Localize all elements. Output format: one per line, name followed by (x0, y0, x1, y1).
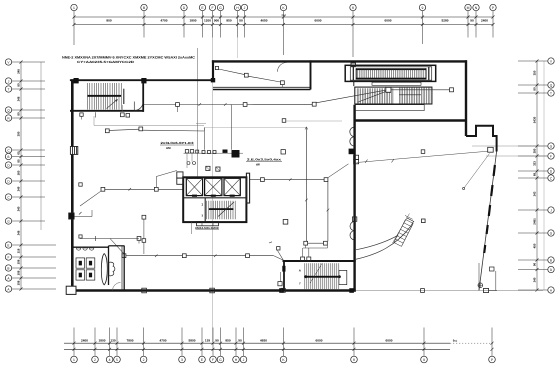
column bottom-left corner (66, 286, 76, 294)
svg-text:4x4: 4x4 (281, 13, 286, 17)
escalator black band top (356, 68, 426, 70)
svg-text:450: 450 (533, 243, 537, 248)
svg-text:b.c: b.c (453, 338, 458, 342)
wire W2 continues right y127.5 faint (204, 127, 306, 129)
wire W1 horizontal y104.5 (144, 104, 176, 106)
floor box open square (283, 220, 288, 225)
right vertical dimension line 2 (543, 61, 545, 290)
vestibule right wall (310, 60, 312, 89)
svg-text:1800: 1800 (99, 338, 106, 342)
svg-text:249: 249 (17, 186, 21, 191)
elevator shaft 2 door (211, 195, 216, 197)
toilet vesica door shape (101, 254, 107, 285)
svg-text:300: 300 (17, 131, 21, 136)
junction box on glass line (421, 289, 425, 293)
bottom right box (484, 288, 489, 292)
svg-text:240: 240 (17, 206, 21, 211)
svg-text:B: B (7, 266, 9, 270)
escalator block outer frame (345, 65, 436, 81)
junction box W6 d (304, 241, 308, 245)
svg-text:6000: 6000 (385, 19, 392, 23)
diagonal facade thick dashes (494, 165, 495, 176)
svg-text:2400: 2400 (481, 19, 488, 23)
top grid bubbles and ticks (71, 4, 77, 45)
svg-text:130: 130 (110, 338, 115, 342)
wall top-left y80.2 (70, 79, 213, 81)
svg-text:2x3L0x6-0P1-E3: 2x3L0x6-0P1-E3 (161, 141, 194, 145)
toilet flower sink (109, 262, 115, 276)
svg-text:E: E (7, 243, 9, 247)
svg-text:240: 240 (533, 277, 537, 282)
escalator end bars (352, 67, 354, 80)
right grid bubbles and stubs (518, 58, 554, 64)
svg-text:2.E.0x3.5x0.4xx: 2.E.0x3.5x0.4xx (247, 157, 281, 161)
svg-text:90: 90 (238, 338, 242, 342)
bottom right hook wire (489, 290, 498, 292)
elevator core outer wall (183, 177, 246, 222)
faint wire y121 (286, 120, 342, 122)
stair top-left door arc (134, 102, 143, 111)
urinal 2 (83, 248, 87, 250)
tick at top of x306 riser (305, 127, 308, 130)
bottom stair landing box (339, 270, 347, 284)
wire toilet diagonal (110, 239, 124, 254)
svg-text:248: 248 (17, 96, 21, 101)
bottom stair junction boxes on wall (301, 257, 305, 261)
svg-text:F: F (212, 358, 214, 362)
core wire down left (190, 222, 192, 234)
left grid bubbles and stubs (5, 59, 45, 65)
core inner wall vertical (204, 198, 206, 222)
elevator shaft 1 (186, 178, 202, 195)
right vertical dimension line (536, 61, 538, 290)
top grid line 5 extended (212, 11, 214, 342)
svg-text:850: 850 (225, 338, 230, 342)
glass line bottom right y290.5 (356, 290, 543, 292)
svg-text:2400: 2400 (81, 338, 88, 342)
left vertical dimension line (20, 62, 22, 289)
svg-text:350: 350 (533, 70, 537, 75)
svg-text:1: 1 (73, 6, 75, 10)
svg-text:80: 80 (17, 112, 21, 116)
svg-text:tW: tW (256, 162, 260, 166)
wire diagonal from W6 box to wall cluster (328, 164, 349, 178)
svg-text:800: 800 (106, 19, 111, 23)
svg-text:85: 85 (17, 159, 21, 163)
vestibule bottom double wall (213, 86, 311, 88)
bottom right vertical wire (478, 263, 480, 291)
wall cluster stacked boxes (354, 155, 359, 159)
floating box near K y120 (282, 119, 286, 123)
svg-text:4: 4 (109, 358, 111, 362)
stair room top-left right wall (142, 80, 144, 112)
svg-text:9: 9 (423, 358, 425, 362)
corner device box (488, 147, 494, 152)
column bottom grid B (142, 288, 147, 293)
junction box floating near D (421, 150, 425, 154)
wire W6 horizontal y179.6 (250, 179, 261, 181)
box D near curved stair (422, 219, 426, 223)
right grid line G extended (472, 145, 548, 147)
double door swing pair 1 on wall (350, 127, 355, 137)
elevator shaft 3 (224, 178, 240, 195)
wire vertical x327.9 (327, 182, 329, 242)
wall y120.5 middle right (355, 119, 467, 121)
stair room top-left bottom wall (70, 110, 143, 112)
wire W1 to right box (391, 89, 450, 91)
wire W4 diagonal to wall (80, 191, 102, 206)
svg-text:4650: 4650 (260, 338, 267, 342)
svg-text:108: 108 (17, 270, 21, 275)
wall bump top right corner (466, 126, 497, 152)
svg-text:2: 2 (143, 358, 145, 362)
svg-text:4700: 4700 (161, 19, 168, 23)
column bottom grid K (279, 288, 284, 293)
slab under escalator (372, 82, 421, 85)
right grid line F extended (486, 155, 548, 157)
stair top-left inner wall (123, 89, 125, 104)
escalator top-left small box (351, 63, 356, 66)
svg-text:108: 108 (17, 280, 21, 285)
svg-text:118: 118 (17, 248, 21, 253)
toilet right wall double (121, 246, 123, 291)
core stair handrail bar (209, 208, 234, 210)
cluster boxes (185, 150, 188, 153)
svg-text:80: 80 (17, 83, 21, 87)
stair top-left up arrow (107, 99, 118, 108)
double door swing pair 2 on wall (350, 222, 355, 231)
svg-text:9: 9 (422, 6, 424, 10)
wall right x466 (465, 60, 467, 136)
WC cubicle r1c1 (76, 258, 85, 268)
escalator 2 frame (355, 87, 432, 104)
riser line at x=197.5 (197, 48, 199, 177)
cluster small circles (187, 162, 190, 165)
bottom dimension line 1 (64, 342, 450, 344)
top dimension line 1 (74, 16, 493, 18)
wire W2 boxes and lines (105, 129, 109, 133)
svg-text:108: 108 (17, 259, 21, 264)
bottom dimension line 2 (64, 348, 450, 350)
bottom stair handrail bar (306, 276, 340, 278)
svg-text:J: J (243, 358, 245, 362)
elevator shaft 1 door (192, 195, 197, 197)
elevator core right bump (246, 173, 249, 203)
vestibule wire 1 (219, 69, 245, 75)
stair top-left handrail bar (88, 95, 122, 97)
svg-text:80: 80 (533, 87, 537, 91)
cluster wires (203, 128, 205, 150)
escalator 2 hatch right (398, 88, 400, 104)
elevator shaft 2 (205, 178, 222, 195)
curved stair arrow line (393, 214, 410, 244)
stair top-left treads (87, 83, 89, 110)
wall cluster filled box (349, 149, 355, 155)
svg-text:160: 160 (17, 170, 21, 175)
wire from W6 boxes down to stair boxes (305, 245, 307, 248)
escalator 2 direction arrow (400, 94, 422, 96)
svg-text:8: 8 (352, 6, 354, 10)
bottom stair treads (304, 263, 306, 289)
svg-text:AM: AM (166, 146, 171, 150)
wire left wall stub y216.5 (74, 216, 92, 218)
curved stair side edge right (402, 223, 414, 246)
bottom stair left wall dark blob (282, 266, 285, 272)
corner tick at x196 (196, 123, 206, 125)
junction box W1 c (312, 102, 316, 106)
junction box W1 b (243, 103, 247, 107)
device on left wall (79, 183, 82, 186)
svg-text:M: M (467, 6, 470, 10)
svg-text:5430: 5430 (533, 116, 537, 123)
svg-text:4700: 4700 (160, 338, 167, 342)
svg-text:65: 65 (17, 151, 21, 155)
column left wall y150 hatched (70, 147, 77, 155)
svg-text:6000: 6000 (386, 338, 393, 342)
wire from box up to cluster (155, 177, 157, 188)
toilet inner wall x108.5 (108, 246, 110, 285)
wire direction ticks (199, 103, 202, 106)
curved walkway outer arc (355, 222, 414, 260)
cluster band line (184, 152, 244, 154)
wire L1 to corner box (357, 151, 489, 162)
svg-text:90: 90 (470, 19, 474, 23)
wall step x213 (212, 60, 214, 81)
bottom stair left open box (278, 282, 282, 286)
svg-text:G: G (219, 6, 222, 10)
svg-text:1200: 1200 (204, 19, 211, 23)
svg-text:8: 8 (353, 358, 355, 362)
WC cubicle r2c2 (86, 270, 95, 280)
bottom stair top wall (283, 260, 356, 262)
wall diagonal facade right (479, 152, 497, 291)
bottom stair left wall (283, 260, 285, 290)
toilet bottom door gap arc (113, 283, 121, 291)
svg-text:F: F (550, 154, 552, 158)
svg-text:F: F (8, 255, 10, 259)
svg-text:333: 333 (533, 161, 537, 166)
slab under escalator 2 (355, 105, 424, 111)
escalator inner frame (350, 67, 431, 80)
svg-text:139: 139 (205, 338, 210, 342)
svg-text:90: 90 (215, 338, 219, 342)
column left wall device y216 (69, 213, 75, 219)
wall x354.6 vertical (353, 105, 355, 292)
bottom stair box on bottom wall (281, 288, 285, 292)
svg-text:6000: 6000 (316, 338, 323, 342)
svg-text:J: J (244, 6, 246, 10)
column bottom grid F (210, 288, 215, 293)
svg-text:68: 68 (533, 173, 537, 177)
vestibule wire 2 (248, 76, 280, 82)
svg-text:2481: 2481 (533, 218, 537, 225)
junction box W6 c (324, 241, 328, 245)
elevator shaft 3 door (230, 195, 235, 197)
cluster x-boxes (206, 166, 210, 170)
core stair treads (206, 201, 208, 220)
svg-text:280: 280 (533, 148, 537, 153)
wire W4 y189.3 (101, 187, 105, 191)
junction box W6 b (324, 178, 328, 182)
wire y243.2 (308, 242, 324, 244)
svg-text:6000: 6000 (315, 19, 322, 23)
devices below stair room (80, 113, 83, 116)
wire vertical x306.4 down (305, 128, 307, 242)
wall top y60.4 (212, 60, 467, 62)
curved walkway inner arc (356, 235, 398, 250)
wall left x71 (71, 79, 74, 291)
column grid B top (141, 78, 146, 83)
core inner wall horizontal (183, 197, 246, 199)
svg-text:2: 2 (94, 358, 96, 362)
svg-text:5280: 5280 (442, 19, 449, 23)
svg-text:CY+AA0235-5+GAMYCC2D: CY+AA0235-5+GAMYCC2D (77, 60, 135, 64)
junction box W1 d (450, 88, 454, 92)
bottom stair left hooks (278, 251, 284, 261)
bottom right hydrant circle (478, 283, 483, 288)
top grid line at x=237 (237, 28, 239, 58)
urinal 1 (76, 248, 80, 250)
svg-text:900: 900 (214, 19, 219, 23)
escalator 2 hatch left (356, 88, 358, 103)
cluster black bars (223, 150, 228, 153)
column top-left (74, 78, 79, 83)
vestibule door arc top (278, 63, 287, 72)
svg-text:3: 3 (181, 358, 183, 362)
wire W5 y255.7 (122, 254, 126, 258)
svg-text:4650: 4650 (261, 19, 268, 23)
elevator core left boxes (177, 172, 183, 178)
WC cubicle r1c2 (86, 258, 95, 268)
top dimension line 2 (74, 24, 493, 26)
svg-text:NNE-2 XMXXNA 2X7/MMMV-5 XNYCXC: NNE-2 XMXXNA 2X7/MMMV-5 XNYCXC XMXME 2YX… (62, 55, 196, 59)
svg-text:F: F (211, 6, 213, 10)
toilet top wall left part (72, 246, 109, 248)
vestibule device (215, 66, 218, 69)
svg-text:7: 7 (201, 214, 203, 218)
curved stair treads (394, 243, 402, 247)
escalator 2 diagonal wire through hatch (358, 92, 386, 103)
svg-text:7800: 7800 (127, 338, 134, 342)
svg-text:1: 1 (73, 358, 75, 362)
escalator 2 center box (386, 87, 391, 92)
wire diagonal to corner box 2 (464, 154, 490, 189)
wire faint parallel y125.4 (94, 124, 204, 126)
svg-text:G: G (219, 358, 222, 362)
core stair arrow (218, 202, 234, 217)
WC cubicle r2c1 (76, 270, 85, 280)
wire stub from box a down (177, 106, 179, 112)
junction box floating K (281, 150, 285, 154)
svg-text:243: 243 (533, 191, 537, 196)
escalator left lower stub (353, 81, 355, 86)
svg-text:5800: 5800 (189, 338, 196, 342)
curved stair side edge left (394, 220, 406, 243)
column bottom grid 8 (349, 288, 354, 293)
svg-text:T: T (550, 91, 552, 95)
escalator hatch (356, 70, 358, 79)
svg-text:1800: 1800 (190, 19, 197, 23)
toilet top wall right part (109, 245, 125, 247)
bottom stair arrow (310, 264, 322, 284)
junction boxes below stair room (120, 113, 124, 117)
svg-text:5: 5 (116, 358, 118, 362)
svg-text:50: 50 (239, 19, 243, 23)
svg-text:850: 850 (226, 19, 231, 23)
box on wall above doors (352, 217, 356, 221)
curved stair cap line (406, 218, 414, 222)
bottom grid bubbles and ticks (71, 328, 78, 363)
svg-text:248: 248 (17, 230, 21, 235)
junction box W6 a (261, 178, 265, 182)
wall bottom y290.5 (70, 289, 356, 291)
svg-text:248: 248 (17, 69, 21, 74)
svg-text:B: B (7, 155, 9, 159)
svg-text:T: T (8, 87, 10, 91)
wire above toilet y238.5 (80, 238, 139, 240)
wire W1 diagonal to escalator (316, 90, 385, 103)
vestibule junction box 1 (244, 73, 248, 77)
svg-text:96: 96 (533, 263, 537, 267)
junction box W1 a (176, 103, 180, 107)
escalator black band bottom (356, 78, 426, 80)
wire column x143.9 (142, 215, 146, 219)
urinal 3 (89, 248, 93, 250)
svg-text:B: B (550, 258, 552, 262)
column at step x213 (211, 78, 215, 82)
core machine box below (197, 222, 219, 226)
vestibule junction box 2 (281, 81, 285, 85)
svg-text:1: 1 (201, 202, 203, 206)
